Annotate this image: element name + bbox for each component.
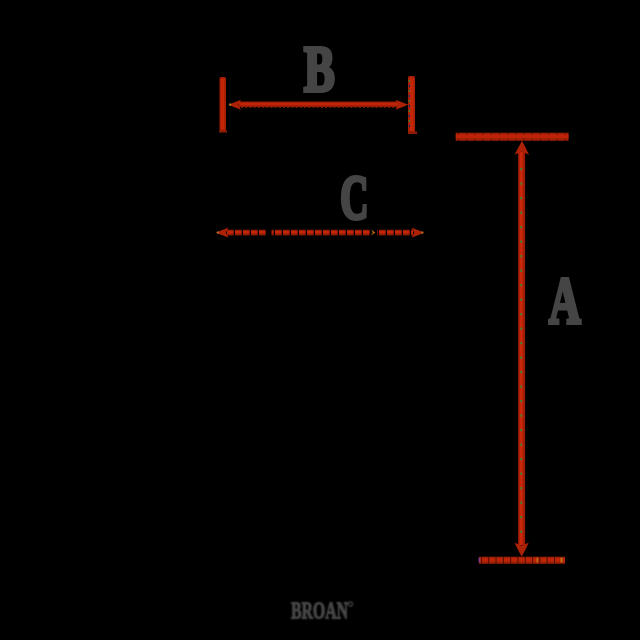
svg-text:C: C: [340, 165, 368, 233]
dimension C: left arrowhead: [216, 228, 229, 238]
dimension A: top arrowhead (up): [515, 141, 529, 155]
dimension A: top reference bar: [456, 134, 569, 140]
C line artifact gaps: [267, 228, 272, 238]
svg-text:A: A: [549, 264, 581, 338]
svg-text:B: B: [304, 33, 335, 106]
dimension A: bottom reference bar (dashed): [479, 558, 566, 563]
svg-text:BROAN: BROAN: [291, 599, 348, 625]
bottom brand logo (blurred small text): [291, 599, 353, 625]
dimension A: vertical double arrow shaft: [518, 152, 525, 545]
green/blue artifact dots on tick: [409, 80, 410, 127]
dimension B: horizontal double arrow shaft: [239, 104, 399, 108]
dimension B: left extension tick: [219, 77, 227, 133]
dimension B: right extension tick: [408, 76, 417, 134]
dimension A: bottom arrowhead (down): [515, 543, 529, 557]
C line orange artifact chevron: [371, 230, 376, 236]
dimension C: dashed double arrow shaft: [227, 229, 413, 235]
dimension B: left arrowhead: [228, 100, 241, 110]
dimension B: right arrowhead: [396, 100, 409, 110]
dimension C: right arrowhead: [412, 228, 425, 238]
